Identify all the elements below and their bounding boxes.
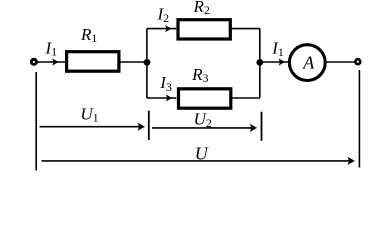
svg-text:R2: R2	[193, 0, 210, 17]
svg-text:A: A	[302, 53, 315, 73]
svg-text:U: U	[195, 144, 209, 164]
